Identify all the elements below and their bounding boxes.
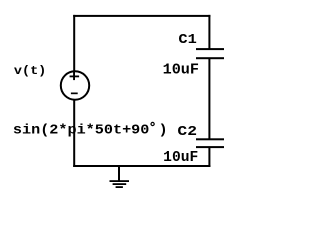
svg-text:10uF: 10uF xyxy=(163,63,199,79)
svg-text:v(t): v(t) xyxy=(14,64,46,78)
svg-text:C2: C2 xyxy=(177,125,197,140)
svg-text:sin(2*pi*50t+90 ): sin(2*pi*50t+90 ) xyxy=(13,123,168,139)
svg-text:10uF: 10uF xyxy=(163,150,198,166)
svg-text:C1: C1 xyxy=(178,33,196,48)
